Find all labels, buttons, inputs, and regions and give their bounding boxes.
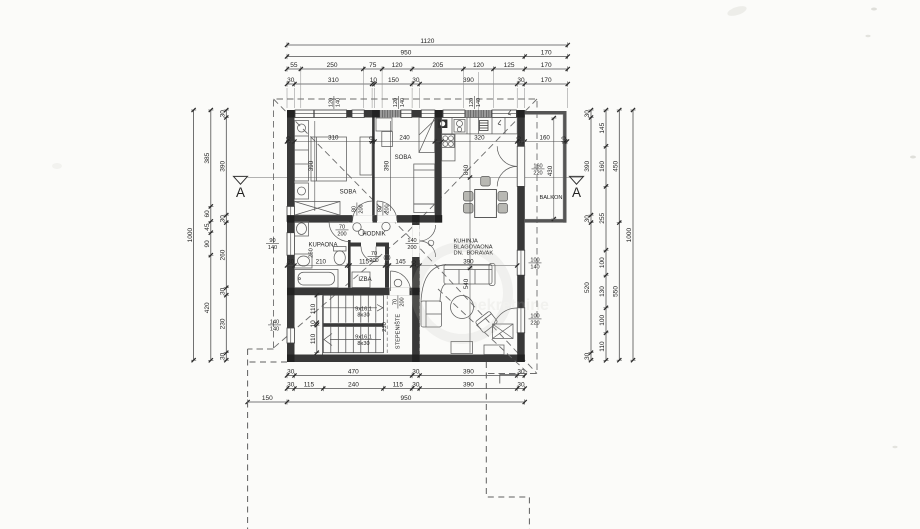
svg-text:90: 90 xyxy=(269,238,275,244)
svg-text:145: 145 xyxy=(395,259,406,266)
svg-text:30: 30 xyxy=(220,215,227,223)
svg-text:140: 140 xyxy=(336,98,342,107)
svg-text:385: 385 xyxy=(204,152,211,163)
bathroom bathtub xyxy=(295,270,339,288)
svg-text:8x30: 8x30 xyxy=(357,312,369,318)
svg-text:100: 100 xyxy=(599,257,606,268)
kitchen oven hatch xyxy=(480,121,489,131)
living pouf crossed xyxy=(493,324,514,339)
kitchen outlet symbol 2 xyxy=(508,110,511,115)
svg-text:390: 390 xyxy=(584,160,591,171)
window bedroom1 north xyxy=(295,110,347,118)
svg-text:125: 125 xyxy=(504,62,515,69)
label door bedroom1 90-200 xyxy=(351,203,364,216)
interior vertical dim bedroom2 xyxy=(384,121,391,211)
svg-text:160: 160 xyxy=(533,163,542,169)
interior vertical dim bedroom1 xyxy=(308,121,315,211)
svg-text:110: 110 xyxy=(599,341,606,352)
bedroom1 dresser xyxy=(295,183,309,199)
bedroom1 wardrobe crossed xyxy=(295,202,341,216)
svg-text:A: A xyxy=(236,185,245,200)
svg-text:200: 200 xyxy=(359,204,365,213)
wall spine vertical xyxy=(412,223,420,362)
svg-text:260: 260 xyxy=(309,248,315,258)
wall hatch segment kitchen north xyxy=(465,110,492,118)
dimension left column total 1000 xyxy=(187,108,196,362)
bedroom1 bed xyxy=(311,137,347,181)
svg-text:120: 120 xyxy=(393,98,399,107)
dimension bottom row 150-950 xyxy=(246,395,527,404)
dimension top row wall segments xyxy=(285,77,570,86)
kitchen outlet symbol 1 xyxy=(498,120,501,125)
svg-text:470: 470 xyxy=(348,369,359,376)
room label kitchen living xyxy=(454,239,494,257)
door arc stair hall xyxy=(391,271,411,291)
svg-text:30: 30 xyxy=(287,382,295,389)
roof eave outline xyxy=(274,99,538,374)
svg-text:115: 115 xyxy=(393,382,404,389)
roof hip diagonal top-left xyxy=(274,99,407,234)
svg-text:30: 30 xyxy=(286,136,293,143)
dimension top row 950-170 xyxy=(285,50,570,59)
kitchen counter side run xyxy=(442,134,455,161)
stair side line xyxy=(322,295,324,354)
door arc izba xyxy=(361,247,376,262)
scan speck c xyxy=(910,156,916,159)
svg-text:30: 30 xyxy=(412,382,420,389)
door arcs living double xyxy=(420,225,436,241)
svg-text:10: 10 xyxy=(310,320,317,328)
svg-text:160: 160 xyxy=(599,161,606,172)
svg-text:30: 30 xyxy=(220,287,227,295)
partition bathroom-hall xyxy=(348,240,351,288)
opening door stair hall xyxy=(390,288,410,296)
section marker A right xyxy=(570,176,584,200)
opening door living xyxy=(412,225,420,257)
window stairs west xyxy=(287,328,295,343)
balcony wall south xyxy=(525,219,567,222)
roof drainage mark xyxy=(500,375,518,384)
svg-text:150: 150 xyxy=(262,395,273,402)
section marker A left xyxy=(234,176,248,200)
bedroom2 shelf nook xyxy=(376,118,392,147)
svg-text:230: 230 xyxy=(382,322,388,332)
svg-text:8x30: 8x30 xyxy=(357,341,369,347)
svg-text:55: 55 xyxy=(290,62,298,69)
wall bathroom south xyxy=(295,288,413,296)
dimension top row window offsets xyxy=(285,62,570,71)
dining chair north xyxy=(481,177,491,187)
svg-text:90: 90 xyxy=(204,240,211,248)
label balcony door 160-220 xyxy=(532,163,545,176)
living armchair angled xyxy=(475,311,498,333)
svg-text:9x16,1: 9x16,1 xyxy=(355,334,372,340)
window bathroom west xyxy=(287,233,295,256)
interior dimension line lower xyxy=(285,259,519,268)
svg-text:70: 70 xyxy=(371,251,377,257)
label door izba 70-200 xyxy=(368,251,381,264)
svg-text:30: 30 xyxy=(220,110,227,118)
svg-text:230: 230 xyxy=(220,318,227,329)
svg-text:170: 170 xyxy=(541,50,552,57)
label door stairhall 70-200 xyxy=(392,296,405,309)
svg-text:75: 75 xyxy=(369,62,377,69)
svg-text:115: 115 xyxy=(304,382,315,389)
dining chair east2 xyxy=(498,204,508,214)
window bedroom2 north b xyxy=(401,110,412,118)
svg-text:60: 60 xyxy=(204,210,211,218)
svg-text:30: 30 xyxy=(412,77,420,84)
window bedroom1 north b xyxy=(352,110,364,118)
svg-text:540: 540 xyxy=(463,278,470,289)
bedroom2 wardrobe hatch xyxy=(419,118,435,153)
svg-text:390: 390 xyxy=(463,382,474,389)
door arcs balcony double xyxy=(497,146,517,166)
svg-text:255: 255 xyxy=(599,212,606,223)
hallway lamp circles xyxy=(353,222,402,287)
svg-text:200: 200 xyxy=(407,245,416,251)
svg-text:200: 200 xyxy=(369,258,378,264)
opening balcony door xyxy=(517,146,525,186)
svg-text:390: 390 xyxy=(463,77,474,84)
svg-text:140: 140 xyxy=(476,98,482,107)
living round table xyxy=(451,296,474,319)
wall outer right xyxy=(517,110,525,362)
staircase label upper flight xyxy=(355,307,372,319)
roof eave connector left xyxy=(248,348,274,350)
wall izba east xyxy=(385,247,389,288)
svg-text:150: 150 xyxy=(388,77,399,84)
living bench left xyxy=(451,342,473,354)
label window 120-140 a xyxy=(328,96,341,109)
svg-text:140: 140 xyxy=(268,245,277,251)
svg-text:120: 120 xyxy=(469,98,475,107)
opening door bedroom1 xyxy=(353,215,373,223)
svg-text:120: 120 xyxy=(328,98,334,107)
dimension top row total 1120 xyxy=(285,38,570,47)
svg-text:100: 100 xyxy=(599,314,606,325)
svg-text:310: 310 xyxy=(328,77,339,84)
label door bedroom2 90-200 xyxy=(377,203,390,216)
svg-text:70: 70 xyxy=(339,224,345,230)
svg-text:220: 220 xyxy=(533,171,542,177)
terrace door arc living xyxy=(492,308,517,333)
svg-text:200: 200 xyxy=(385,204,391,213)
svg-text:1120: 1120 xyxy=(420,38,434,45)
extension lines top xyxy=(287,72,568,118)
svg-text:140: 140 xyxy=(270,327,279,333)
svg-text:IZBA: IZBA xyxy=(358,277,371,283)
dining chair west1 xyxy=(464,192,474,202)
svg-text:220: 220 xyxy=(530,321,539,327)
window kitchen west lintel xyxy=(421,110,435,118)
svg-text:520: 520 xyxy=(584,282,591,293)
svg-text:140: 140 xyxy=(407,238,416,244)
bedroom1 closet column xyxy=(295,121,309,182)
wall kitchen west xyxy=(435,110,442,223)
svg-text:310: 310 xyxy=(328,135,339,142)
izba shelf xyxy=(352,272,370,288)
living sofa corner curve xyxy=(421,265,446,303)
label window sill 100-140 xyxy=(529,257,542,270)
opening door bedroom2 xyxy=(377,215,397,223)
wall outer top xyxy=(287,110,525,118)
opening door bathroom xyxy=(348,223,351,240)
label window 120-140 c xyxy=(469,96,482,109)
svg-text:420: 420 xyxy=(204,302,211,313)
svg-text:450: 450 xyxy=(613,160,620,171)
svg-text:160: 160 xyxy=(540,135,551,142)
svg-text:30: 30 xyxy=(412,369,420,376)
svg-text:430: 430 xyxy=(547,165,554,176)
door arc bedroom1 xyxy=(353,201,373,221)
svg-text:140: 140 xyxy=(400,98,406,107)
wall hatch window bedroom2 north xyxy=(374,110,401,118)
lower floor outline bottom edge xyxy=(248,361,287,363)
svg-text:30: 30 xyxy=(220,352,227,360)
interior vertical dim living xyxy=(463,118,472,353)
svg-text:140: 140 xyxy=(270,319,279,325)
label window sill 90-140 left xyxy=(266,238,279,251)
svg-text:950: 950 xyxy=(400,50,411,57)
svg-text:1000: 1000 xyxy=(626,227,633,242)
scan speck a xyxy=(871,8,877,11)
svg-text:HODNIK: HODNIK xyxy=(362,231,385,237)
svg-text:110: 110 xyxy=(310,303,317,314)
svg-text:260: 260 xyxy=(220,249,227,260)
svg-text:80: 80 xyxy=(351,206,357,212)
dimension bottom row wall segments xyxy=(285,369,527,378)
window kitchen lintel xyxy=(443,110,465,118)
label window sill 140-140 left xyxy=(268,319,281,332)
svg-text:210: 210 xyxy=(316,259,327,266)
scan speck b xyxy=(866,35,871,37)
living sofa vertical arm xyxy=(421,301,442,327)
wall outer bottom xyxy=(287,355,525,363)
kitchen boiler xyxy=(438,120,448,129)
section line A-A xyxy=(248,177,583,179)
dimension bottom row partitions xyxy=(285,382,527,391)
dimension right column wall segments xyxy=(584,108,593,362)
svg-text:170: 170 xyxy=(541,77,552,84)
opening door izba xyxy=(361,243,376,247)
window living east lower xyxy=(517,308,525,333)
window kitchen north xyxy=(492,110,516,118)
svg-text:100: 100 xyxy=(530,257,539,263)
svg-text:100: 100 xyxy=(530,313,539,319)
wall bedrooms south xyxy=(295,215,435,223)
bathroom sink top xyxy=(295,222,309,237)
label door living 140-200 xyxy=(406,238,419,251)
svg-text:550: 550 xyxy=(613,286,620,297)
svg-text:30: 30 xyxy=(287,77,295,84)
bedroom2 bed xyxy=(414,164,435,204)
balcony wall east xyxy=(563,111,566,223)
dimension left column wall segments xyxy=(220,108,229,362)
svg-text:30: 30 xyxy=(584,215,591,223)
roof hip diagonal bottom-left xyxy=(274,234,407,349)
dining chair west2 xyxy=(464,204,474,214)
door arc bedroom2 xyxy=(377,201,397,221)
dimension right column total 1000 xyxy=(626,108,635,362)
svg-text:115: 115 xyxy=(359,259,369,266)
svg-text:950: 950 xyxy=(400,395,411,402)
svg-text:10: 10 xyxy=(411,260,418,267)
bedroom1 desk xyxy=(360,137,372,175)
balcony wall north xyxy=(525,111,567,114)
svg-text:390: 390 xyxy=(384,160,391,171)
living bench right xyxy=(484,345,504,355)
scan smudge top right xyxy=(726,4,747,18)
scan speck e xyxy=(893,446,898,448)
second dashed diagonal lower roof xyxy=(438,289,529,374)
living sofa horizontal arm xyxy=(444,264,495,286)
svg-text:250: 250 xyxy=(327,62,338,69)
kitchen sink xyxy=(454,120,465,133)
svg-text:30: 30 xyxy=(287,369,295,376)
svg-text:30: 30 xyxy=(287,259,294,266)
svg-text:10: 10 xyxy=(368,136,375,143)
kitchen counter top run xyxy=(442,118,518,134)
svg-text:KUPAONA: KUPAONA xyxy=(309,242,338,248)
window bathroom corner west xyxy=(287,206,295,221)
partition between bedrooms xyxy=(372,118,375,216)
kitchen stove burners xyxy=(442,135,455,148)
label window sill 100-220 xyxy=(529,313,542,326)
label window 120-140 b xyxy=(393,96,406,109)
bathroom toilet xyxy=(334,247,347,265)
svg-text:320: 320 xyxy=(474,135,485,142)
staircase label lower flight xyxy=(355,334,372,347)
window living east upper xyxy=(517,250,525,275)
svg-text:BALKON: BALKON xyxy=(539,195,562,201)
svg-text:390: 390 xyxy=(463,259,474,266)
svg-text:70: 70 xyxy=(392,299,398,305)
wall izba north xyxy=(351,243,390,247)
dining table xyxy=(475,190,497,218)
svg-text:390: 390 xyxy=(220,160,227,171)
svg-text:390: 390 xyxy=(463,369,474,376)
svg-text:145: 145 xyxy=(599,122,606,133)
roof hip diagonal bottom-right xyxy=(406,234,537,374)
svg-text:SOBA: SOBA xyxy=(395,155,412,161)
svg-text:140: 140 xyxy=(530,265,539,271)
door arc bathroom xyxy=(329,222,349,242)
staircase flights xyxy=(323,295,387,354)
wall junction piers xyxy=(287,110,525,362)
dimension right column 450-550 xyxy=(613,108,622,362)
svg-text:860: 860 xyxy=(463,164,470,175)
svg-text:200: 200 xyxy=(337,232,346,238)
roof hip diagonal top-right xyxy=(406,99,537,234)
lower floor outline right step xyxy=(486,362,529,529)
svg-text:30: 30 xyxy=(516,136,523,143)
svg-text:10: 10 xyxy=(370,77,378,84)
svg-text:30: 30 xyxy=(517,77,525,84)
label door bathroom 70-200 xyxy=(336,224,349,237)
svg-text:30: 30 xyxy=(584,352,591,360)
bedroom2 shelf xyxy=(414,204,435,213)
balcony inner line xyxy=(525,114,563,219)
svg-text:110: 110 xyxy=(310,333,317,344)
scan speck d xyxy=(52,163,62,169)
interior dimension line upper xyxy=(285,135,569,144)
balcony dimension 430 xyxy=(547,116,556,221)
svg-text:240: 240 xyxy=(348,382,359,389)
svg-text:nekretnine: nekretnine xyxy=(468,297,549,314)
svg-text:30: 30 xyxy=(584,110,591,118)
wall outer left xyxy=(287,110,295,362)
svg-text:390: 390 xyxy=(308,160,315,171)
svg-text:80: 80 xyxy=(377,206,383,212)
lower floor outline left xyxy=(247,349,249,529)
dimension left column window offsets xyxy=(204,108,213,363)
hidden wall line below living room xyxy=(419,225,421,354)
svg-text:STEPENIŠTE: STEPENIŠTE xyxy=(395,314,402,350)
svg-text:SOBA: SOBA xyxy=(340,190,357,196)
svg-text:170: 170 xyxy=(541,62,552,69)
svg-text:200: 200 xyxy=(400,297,406,306)
watermark circle xyxy=(416,247,549,339)
svg-text:A: A xyxy=(572,185,581,200)
svg-text:30: 30 xyxy=(517,382,525,389)
svg-text:205: 205 xyxy=(432,62,443,69)
svg-text:240: 240 xyxy=(399,135,410,142)
bathroom vanity xyxy=(295,254,313,268)
svg-text:1000: 1000 xyxy=(187,227,194,242)
svg-text:120: 120 xyxy=(473,62,484,69)
svg-text:130: 130 xyxy=(599,286,606,297)
svg-text:120: 120 xyxy=(392,62,403,69)
svg-text:45: 45 xyxy=(204,223,211,231)
svg-text:10: 10 xyxy=(561,136,568,143)
dimension stair flights xyxy=(310,293,319,355)
dimension right column window offsets xyxy=(599,108,608,363)
dining chair east1 xyxy=(498,192,508,202)
